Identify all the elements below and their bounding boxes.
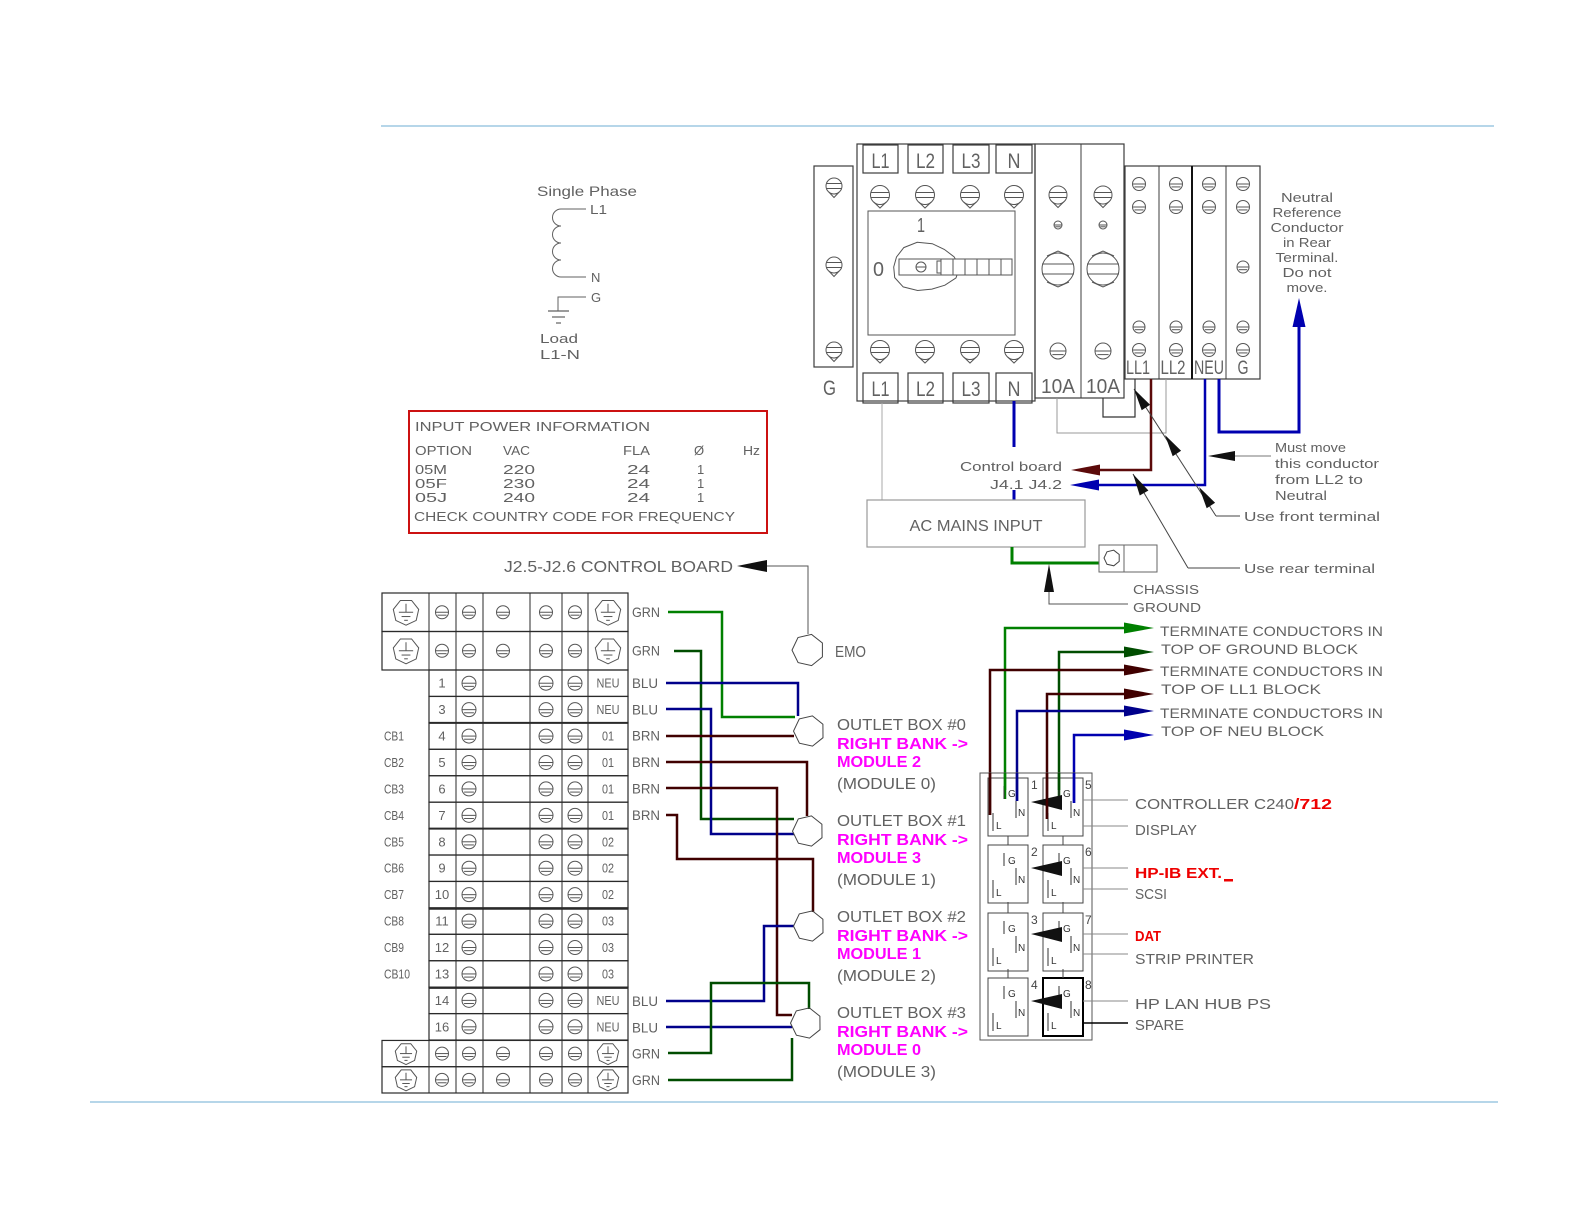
svg-text:G: G — [1238, 358, 1249, 379]
svg-text:Use front terminal: Use front terminal — [1244, 509, 1380, 524]
input power information box — [409, 411, 767, 533]
svg-text:CB2: CB2 — [384, 755, 404, 770]
svg-text:24: 24 — [627, 490, 650, 505]
NEU block heavy divider — [1191, 166, 1193, 379]
svg-text:N: N — [591, 270, 600, 285]
wire N to control board (navy) — [1013, 401, 1016, 447]
switch bottom screws — [871, 341, 890, 364]
svg-text:CB8: CB8 — [384, 914, 404, 929]
switch top terminals L1 L2 L3 N — [863, 145, 898, 173]
svg-text:1: 1 — [697, 462, 704, 477]
svg-text:G: G — [1008, 789, 1016, 800]
svg-text:G: G — [1008, 856, 1016, 867]
svg-text:05J: 05J — [415, 490, 447, 505]
svg-text:220: 220 — [503, 462, 535, 477]
svg-text:Terminal.: Terminal. — [1276, 250, 1339, 265]
node N — [561, 276, 586, 278]
svg-text:L2: L2 — [916, 150, 935, 173]
svg-text:01: 01 — [602, 756, 614, 770]
outlet box #1 symbol — [793, 816, 823, 846]
socket 8 — [1043, 978, 1083, 1036]
svg-text:10: 10 — [435, 887, 449, 902]
socket 5 — [1043, 778, 1083, 836]
bottom page rule — [90, 1101, 1498, 1103]
svg-text:GRN: GRN — [632, 604, 660, 620]
svg-text:(MODULE 3): (MODULE 3) — [837, 1064, 936, 1081]
svg-text:in Rear: in Rear — [1283, 235, 1332, 250]
svg-text:4: 4 — [438, 729, 445, 744]
socket pair arrow — [1031, 795, 1062, 810]
svg-text:G: G — [1063, 856, 1071, 867]
svg-text:3: 3 — [438, 702, 445, 717]
svg-text:Use rear terminal: Use rear terminal — [1244, 561, 1375, 576]
wire GRN2 — [674, 651, 794, 819]
svg-text:Control board: Control board — [960, 459, 1062, 474]
svg-text:N: N — [1073, 1008, 1080, 1019]
svg-text:L: L — [996, 821, 1002, 832]
switch bottom terminals L1 L2 L3 N — [863, 373, 898, 403]
svg-text:BRN: BRN — [632, 781, 660, 797]
svg-text:1: 1 — [697, 490, 704, 505]
svg-text:01: 01 — [602, 730, 614, 744]
arrow J4.2 (navy) — [1070, 480, 1099, 491]
svg-text:from LL2 to: from LL2 to — [1275, 472, 1363, 487]
wire GRN4 — [668, 1038, 792, 1080]
svg-text:Do not: Do not — [1283, 265, 1332, 280]
svg-text:CHECK COUNTRY CODE FOR FREQUEN: CHECK COUNTRY CODE FOR FREQUENCY — [414, 509, 735, 524]
svg-text:INPUT POWER INFORMATION: INPUT POWER INFORMATION — [415, 419, 650, 434]
svg-text:Neutral: Neutral — [1281, 190, 1333, 205]
svg-text:Ø: Ø — [694, 443, 704, 458]
svg-text:GRN: GRN — [632, 1046, 660, 1062]
svg-text:STRIP PRINTER: STRIP PRINTER — [1135, 951, 1254, 968]
svg-text:MODULE 0: MODULE 0 — [837, 1042, 921, 1059]
svg-text:BLU: BLU — [632, 993, 658, 1009]
svg-text:5: 5 — [1085, 778, 1092, 792]
svg-text:HP LAN HUB PS: HP LAN HUB PS — [1135, 996, 1271, 1013]
svg-text:230: 230 — [503, 476, 535, 491]
svg-text:L3: L3 — [962, 150, 981, 173]
socket 2 — [988, 845, 1028, 903]
wire navy socket1 N — [1017, 711, 1124, 801]
svg-text:(MODULE 2): (MODULE 2) — [837, 968, 936, 985]
svg-text:02: 02 — [602, 862, 614, 876]
svg-text:L: L — [996, 1021, 1002, 1032]
svg-text:L: L — [1051, 821, 1057, 832]
socket pair arrow — [1031, 927, 1062, 942]
socket pair arrow — [1031, 861, 1062, 876]
svg-text:3: 3 — [1031, 913, 1038, 927]
AC mains input box — [867, 500, 1085, 547]
wire BRN4 — [666, 815, 813, 912]
wire green socket1 G — [1005, 628, 1124, 799]
chassis ground stud box — [1099, 545, 1157, 572]
socket 3 — [988, 913, 1028, 971]
svg-text:G: G — [1063, 924, 1071, 935]
svg-text:NEU: NEU — [1194, 358, 1224, 379]
svg-text:1: 1 — [1031, 778, 1038, 792]
svg-text:CB5: CB5 — [384, 834, 404, 849]
arrow J4.1 (maroon) — [1071, 465, 1100, 476]
svg-text:L: L — [996, 956, 1002, 967]
svg-text:GRN: GRN — [632, 643, 660, 659]
fuse holder block — [1035, 144, 1124, 398]
svg-text:03: 03 — [602, 915, 614, 929]
svg-text:MODULE 1: MODULE 1 — [837, 946, 921, 963]
svg-text:MODULE 3: MODULE 3 — [837, 850, 921, 867]
svg-text:N: N — [1018, 808, 1025, 819]
svg-text:CB3: CB3 — [384, 781, 404, 796]
wire maroon socket1 L — [990, 670, 1124, 815]
node G wire — [558, 297, 586, 311]
svg-text:7: 7 — [1085, 913, 1092, 927]
svg-text:OUTLET BOX #2: OUTLET BOX #2 — [837, 909, 966, 926]
svg-text:RIGHT BANK ->: RIGHT BANK -> — [837, 832, 968, 849]
svg-text:N: N — [1018, 875, 1025, 886]
svg-text:05M: 05M — [415, 462, 447, 477]
socket supply wires — [989, 773, 992, 815]
svg-text:NEU: NEU — [597, 703, 620, 717]
svg-text:6: 6 — [1085, 845, 1092, 859]
svg-text:(MODULE 1): (MODULE 1) — [837, 872, 936, 889]
outlet box #0 symbol — [794, 716, 824, 746]
wire LL1 front terminal to control board J4.1 (maroon) — [1100, 379, 1151, 470]
wire BLU2 — [666, 709, 794, 834]
svg-text:this conductor: this conductor — [1275, 456, 1380, 471]
svg-text:Hz: Hz — [743, 443, 760, 458]
wire NEU front terminal to J4.2 (navy) — [1099, 379, 1205, 485]
inductor winding (source) — [553, 209, 562, 277]
svg-text:1: 1 — [438, 676, 445, 691]
svg-text:G: G — [1063, 789, 1071, 800]
svg-text:03: 03 — [602, 941, 614, 955]
svg-text:CB6: CB6 — [384, 861, 404, 876]
svg-text:G: G — [1008, 924, 1016, 935]
svg-text:L1-N: L1-N — [540, 347, 580, 362]
svg-text:9: 9 — [438, 861, 445, 876]
svg-text:TERMINATE CONDUCTORS IN: TERMINATE CONDUCTORS IN — [1160, 663, 1383, 679]
svg-text:N: N — [1008, 378, 1021, 401]
svg-text:10A: 10A — [1086, 376, 1121, 398]
wire navy socket5 N — [1074, 735, 1124, 803]
wire BRN3 — [666, 788, 792, 1015]
svg-text:DAT: DAT — [1135, 928, 1161, 945]
wire BLU1 — [666, 683, 798, 716]
outlet box #3 symbol — [791, 1008, 821, 1038]
svg-text:GROUND: GROUND — [1133, 600, 1201, 615]
svg-text:BLU: BLU — [632, 702, 658, 718]
svg-text:OUTLET BOX #0: OUTLET BOX #0 — [837, 717, 966, 734]
svg-text:LL2: LL2 — [1161, 358, 1186, 379]
svg-text:5: 5 — [438, 755, 445, 770]
svg-text:BLU: BLU — [632, 675, 658, 691]
svg-text:24: 24 — [627, 476, 650, 491]
svg-text:L1: L1 — [872, 378, 890, 401]
svg-text:N: N — [1018, 1008, 1025, 1019]
rotary switch face — [868, 211, 1015, 335]
svg-text:1: 1 — [917, 215, 925, 237]
svg-text:L: L — [1051, 1021, 1057, 1032]
svg-text:N: N — [1018, 943, 1025, 954]
svg-text:13: 13 — [435, 966, 449, 981]
wire maroon socket5 L — [1047, 694, 1124, 819]
wire BLU14 — [666, 926, 794, 1001]
svg-text:OUTLET BOX #1: OUTLET BOX #1 — [837, 813, 966, 830]
svg-text:RIGHT BANK ->: RIGHT BANK -> — [837, 1024, 968, 1041]
svg-text:TERMINATE CONDUCTORS IN: TERMINATE CONDUCTORS IN — [1160, 705, 1383, 721]
use rear terminal leader — [1133, 474, 1188, 568]
earth ground symbol — [548, 310, 569, 312]
svg-text:05F: 05F — [415, 476, 447, 491]
top page rule — [381, 125, 1494, 127]
svg-text:01: 01 — [602, 809, 614, 823]
socket 6 — [1043, 845, 1083, 903]
svg-text:J2.5-J2.6 CONTROL BOARD: J2.5-J2.6 CONTROL BOARD — [504, 559, 733, 576]
svg-text:CONTROLLER C240: CONTROLLER C240 — [1135, 796, 1294, 813]
svg-text:Neutral: Neutral — [1275, 488, 1327, 503]
fuse 10A column 1 — [1049, 186, 1067, 208]
svg-text:LL1: LL1 — [1126, 358, 1150, 379]
svg-text:1: 1 — [697, 476, 704, 491]
svg-text:OPTION: OPTION — [415, 443, 472, 458]
svg-text:L1: L1 — [872, 150, 890, 173]
must move arrow (black) — [1208, 451, 1235, 461]
svg-text:BRN: BRN — [632, 728, 660, 744]
wire fuse2 to LL1 bottom (black) — [1103, 379, 1135, 417]
svg-text:GRN: GRN — [632, 1072, 660, 1088]
svg-text:TERMINATE CONDUCTORS IN: TERMINATE CONDUCTORS IN — [1160, 623, 1383, 639]
svg-text:01: 01 — [602, 782, 614, 796]
svg-text:BRN: BRN — [632, 807, 660, 823]
switch handle bar — [899, 259, 1012, 275]
svg-text:8: 8 — [1085, 978, 1092, 992]
neutral reference arrow (navy up) — [1293, 298, 1306, 327]
svg-text:CB9: CB9 — [384, 940, 404, 955]
green wire AC mains to chassis stud — [1012, 547, 1099, 563]
use front terminal leader — [1134, 389, 1216, 516]
wire GRN3 — [668, 983, 809, 1053]
svg-text:24: 24 — [627, 462, 650, 477]
wire BRN2 — [666, 762, 807, 816]
svg-text:4: 4 — [1031, 978, 1038, 992]
svg-text:Single Phase: Single Phase — [537, 183, 637, 199]
svg-text:2: 2 — [1031, 845, 1038, 859]
svg-text:N: N — [1008, 150, 1021, 173]
svg-text:EMO: EMO — [835, 644, 866, 661]
svg-text:Must move: Must move — [1275, 440, 1346, 455]
wire GRN1 — [668, 612, 795, 717]
svg-text:N: N — [1073, 808, 1080, 819]
svg-text:G: G — [591, 290, 601, 305]
svg-text:8: 8 — [438, 834, 445, 849]
svg-text:BLU: BLU — [632, 1020, 658, 1036]
svg-text:CB10: CB10 — [384, 966, 410, 981]
control board terminal strip table — [382, 593, 628, 632]
svg-text:TOP OF NEU BLOCK: TOP OF NEU BLOCK — [1161, 723, 1325, 739]
socket pair arrow — [1031, 994, 1062, 1009]
svg-text:FLA: FLA — [623, 443, 650, 458]
svg-text:10A: 10A — [1041, 376, 1076, 398]
svg-text:SPARE: SPARE — [1135, 1017, 1184, 1034]
svg-text:/712: /712 — [1294, 796, 1332, 813]
wire BRN1 — [666, 735, 794, 738]
wire fuse1 to LL2 bottom (gray) — [1057, 379, 1166, 433]
svg-text:16: 16 — [435, 1019, 449, 1034]
svg-text:AC MAINS INPUT: AC MAINS INPUT — [910, 518, 1043, 535]
svg-text:G: G — [1008, 989, 1016, 1000]
svg-text:TOP OF GROUND BLOCK: TOP OF GROUND BLOCK — [1161, 641, 1359, 657]
svg-text:G: G — [1063, 989, 1071, 1000]
svg-text:HP-IB EXT.: HP-IB EXT. — [1135, 865, 1222, 882]
table section boundaries — [429, 722, 628, 724]
svg-text:02: 02 — [602, 888, 614, 902]
svg-text:N: N — [1073, 875, 1080, 886]
svg-text:Conductor: Conductor — [1271, 220, 1345, 235]
svg-text:240: 240 — [503, 490, 535, 505]
terminal block strip — [1125, 166, 1260, 379]
node L1 — [561, 208, 586, 210]
fuse 10A column 2 — [1094, 186, 1112, 208]
svg-text:CB1: CB1 — [384, 729, 404, 744]
socket 7 — [1043, 913, 1083, 971]
svg-text:11: 11 — [435, 914, 449, 929]
ground strip G — [814, 166, 853, 367]
wire BLU16 — [666, 1026, 792, 1029]
EMO switch — [792, 634, 822, 665]
chassis ground arrow — [1044, 564, 1054, 592]
svg-text:MODULE 2: MODULE 2 — [837, 754, 921, 771]
svg-text:03: 03 — [602, 967, 614, 981]
socket 4 — [988, 978, 1028, 1036]
svg-text:VAC: VAC — [503, 443, 530, 458]
svg-text:L1: L1 — [590, 202, 607, 217]
wire NEU rear terminal / neutral reference (navy) — [1219, 327, 1299, 432]
outlet panel — [980, 773, 1092, 1040]
svg-text:DISPLAY: DISPLAY — [1135, 822, 1197, 839]
svg-text:BRN: BRN — [632, 754, 660, 770]
svg-text:6: 6 — [438, 781, 445, 796]
svg-text:NEU: NEU — [597, 1020, 620, 1034]
svg-text:RIGHT BANK ->: RIGHT BANK -> — [837, 736, 968, 753]
switch body — [857, 144, 1035, 401]
svg-text:NEU: NEU — [597, 994, 620, 1008]
svg-text:L2: L2 — [916, 378, 935, 401]
svg-text:02: 02 — [602, 835, 614, 849]
svg-text:SCSI: SCSI — [1135, 886, 1167, 903]
svg-text:CB7: CB7 — [384, 887, 404, 902]
svg-text:Reference: Reference — [1273, 205, 1342, 220]
outlet box #2 symbol — [794, 911, 824, 941]
socket 1 — [988, 778, 1028, 836]
svg-text:RIGHT BANK ->: RIGHT BANK -> — [837, 928, 968, 945]
svg-text:CHASSIS: CHASSIS — [1133, 582, 1199, 597]
svg-text:J4.1 J4.2: J4.1 J4.2 — [990, 477, 1062, 492]
svg-text:L: L — [1051, 888, 1057, 899]
svg-text:0: 0 — [873, 259, 884, 281]
svg-text:L: L — [1051, 956, 1057, 967]
svg-text:G: G — [823, 377, 836, 400]
svg-text:NEU: NEU — [597, 677, 620, 691]
svg-text:7: 7 — [438, 808, 445, 823]
svg-text:move.: move. — [1287, 280, 1328, 295]
svg-text:L: L — [996, 888, 1002, 899]
wire L1 to AC mains (gray) — [881, 403, 883, 500]
svg-text:TOP OF LL1 BLOCK: TOP OF LL1 BLOCK — [1161, 681, 1322, 697]
svg-text:Load: Load — [540, 331, 578, 346]
device labels — [1083, 799, 1128, 801]
svg-text:12: 12 — [435, 940, 449, 955]
svg-text:L3: L3 — [962, 378, 981, 401]
svg-text:14: 14 — [435, 993, 449, 1008]
svg-text:OUTLET BOX #3: OUTLET BOX #3 — [837, 1005, 966, 1022]
wire green socket5 G — [1059, 652, 1124, 799]
svg-text:(MODULE 0): (MODULE 0) — [837, 776, 936, 793]
svg-text:N: N — [1073, 943, 1080, 954]
svg-text:CB4: CB4 — [384, 808, 404, 823]
